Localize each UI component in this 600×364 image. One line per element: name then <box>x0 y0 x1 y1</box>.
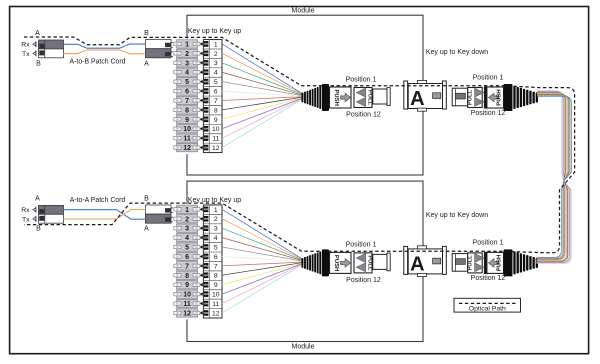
MPO connector PULL sleeve <box>354 88 372 108</box>
svg-text:9: 9 <box>214 282 218 289</box>
fanout fiber 7 (red) <box>222 97 304 101</box>
LC adapter port 9 on faceplate <box>174 281 200 289</box>
LC adapter port 1 on faceplate <box>174 205 200 213</box>
fanout fiber 6 (white) <box>222 91 304 96</box>
svg-text:PULL: PULL <box>468 255 474 271</box>
trunk fiber 4 (brown) <box>537 95 569 259</box>
LC adapter port 11 on faceplate <box>174 134 200 142</box>
fiber pigtail plug, table row 4 <box>200 69 218 76</box>
fanout fiber 1 (blue) <box>222 209 304 259</box>
svg-text:Module: Module <box>292 8 315 15</box>
fanout fiber 5 (slate) <box>222 247 304 261</box>
svg-text:Position 1: Position 1 <box>346 76 377 83</box>
svg-text:2: 2 <box>214 51 218 58</box>
trunk fiber 8 (black) <box>537 93 568 262</box>
module front faceplate LC adapter column background <box>173 204 201 320</box>
svg-text:4: 4 <box>214 235 218 242</box>
fiber pigtail plug, table row 2 <box>200 51 218 58</box>
svg-text:3: 3 <box>185 226 189 233</box>
LC adapter port 6 on faceplate <box>174 252 200 260</box>
MPO connector boot (module side) <box>302 84 330 111</box>
svg-text:B: B <box>144 30 149 37</box>
duplex LC connector (right end, AA patch cord) <box>145 205 174 223</box>
svg-text:7: 7 <box>185 98 189 105</box>
svg-text:PULL: PULL <box>468 89 474 105</box>
LC adapter port 10 on faceplate <box>174 290 200 298</box>
LC adapter port 3 on faceplate <box>174 59 200 67</box>
fanout fiber 4 (brown) <box>222 72 304 95</box>
LC adapter port 9 on faceplate <box>174 115 200 123</box>
fanout fiber 8 (black) <box>222 262 304 275</box>
svg-text:7: 7 <box>214 98 218 105</box>
trunk fiber 9 (yellow) <box>537 92 569 262</box>
svg-text:Position 12: Position 12 <box>471 275 506 282</box>
LC adapter port 12 on faceplate <box>174 309 200 317</box>
svg-text:5: 5 <box>214 79 218 86</box>
MPO ferrule (trunk side) <box>452 254 468 272</box>
LC adapter port 8 on faceplate <box>174 106 200 114</box>
trunk fiber 11 (rose) <box>537 91 571 263</box>
svg-text:Key up to Key down: Key up to Key down <box>426 212 488 219</box>
svg-text:A: A <box>410 88 424 110</box>
svg-text:12: 12 <box>212 145 220 152</box>
LC adapter port 5 on faceplate <box>174 77 200 85</box>
svg-text:Position 12: Position 12 <box>346 111 381 118</box>
svg-text:4: 4 <box>214 70 218 77</box>
LC adapter port 4 on faceplate <box>174 68 200 76</box>
svg-text:3: 3 <box>214 226 218 233</box>
svg-text:7: 7 <box>185 263 189 270</box>
rear fiber table (positions 1-12) <box>203 40 222 153</box>
svg-text:A-to-B Patch Cord: A-to-B Patch Cord <box>70 58 126 65</box>
MPO connector boot (module side) <box>302 249 330 276</box>
svg-text:A: A <box>144 60 149 67</box>
svg-text:B: B <box>144 195 149 202</box>
MPO connector PUSH housing <box>330 87 352 108</box>
LC adapter port 3 on faceplate <box>174 224 200 232</box>
fanout fiber 3 (green) <box>222 228 304 260</box>
svg-text:3: 3 <box>185 60 189 67</box>
fanout fiber 8 (black) <box>222 97 304 110</box>
MPO connector PULL sleeve <box>354 253 372 273</box>
svg-text:12: 12 <box>183 145 191 152</box>
module front faceplate LC adapter column background <box>173 39 201 155</box>
duplex LC connector (right end, AB patch cord) <box>145 40 174 58</box>
svg-text:9: 9 <box>185 282 189 289</box>
svg-text:Module: Module <box>292 343 315 350</box>
svg-text:6: 6 <box>214 254 218 261</box>
svg-text:1: 1 <box>214 207 218 214</box>
svg-text:12: 12 <box>212 310 220 317</box>
duplex LC connector (left end, AA patch cord) <box>33 205 64 223</box>
LC adapter port 7 on faceplate <box>174 262 200 270</box>
svg-text:PUSH: PUSH <box>333 90 339 106</box>
svg-text:11: 11 <box>183 301 191 308</box>
fanout fiber 12 (aqua) <box>222 98 304 147</box>
fiber pigtail plug, table row 9 <box>200 282 218 289</box>
fanout fiber 2 (orange) <box>222 53 304 94</box>
svg-text:5: 5 <box>185 245 189 252</box>
MPO ferrule <box>373 253 390 271</box>
svg-text:Tx: Tx <box>22 51 30 58</box>
MPO adapter "A" (key-up / key-down) <box>404 80 447 111</box>
svg-text:2: 2 <box>185 51 189 58</box>
fiber pigtail plug, table row 4 <box>200 235 218 242</box>
LC adapter port 6 on faceplate <box>174 87 200 95</box>
svg-text:PULL: PULL <box>367 90 373 106</box>
fiber pigtail plug, table row 8 <box>200 107 218 114</box>
LC adapter port 8 on faceplate <box>174 271 200 279</box>
svg-text:5: 5 <box>185 79 189 86</box>
fanout fiber 12 (aqua) <box>222 264 304 313</box>
svg-text:PUSH: PUSH <box>497 89 503 105</box>
fiber pigtail plug, table row 6 <box>200 254 218 261</box>
svg-text:10: 10 <box>212 126 220 133</box>
trunk fiber 1 (blue) <box>537 96 572 257</box>
fiber pigtail plug, table row 9 <box>200 117 218 124</box>
MPO trunk connector PULL sleeve <box>468 253 483 273</box>
MPO trunk connector PUSH housing <box>485 252 504 273</box>
svg-text:Position 1: Position 1 <box>473 74 504 81</box>
svg-text:Optical Path: Optical Path <box>469 305 506 312</box>
svg-text:8: 8 <box>185 107 189 114</box>
MPO ferrule (trunk side) <box>452 88 468 106</box>
svg-text:10: 10 <box>183 126 191 133</box>
fanout fiber 9 (yellow) <box>222 263 304 285</box>
MPO trunk connector PUSH housing <box>485 87 504 108</box>
svg-text:8: 8 <box>185 273 189 280</box>
svg-text:3: 3 <box>214 60 218 67</box>
svg-text:8: 8 <box>214 107 218 114</box>
fiber pigtail plug, table row 12 <box>200 310 220 317</box>
MPO ferrule <box>373 88 390 106</box>
MPO trunk connector boot <box>504 249 539 276</box>
orange fiber (A-to-A cord, crosses over) <box>64 210 146 220</box>
fanout fiber 9 (yellow) <box>222 97 304 119</box>
fiber pigtail plug, table row 10 <box>200 126 220 133</box>
fanout fiber 6 (white) <box>222 256 304 261</box>
fanout fiber 4 (brown) <box>222 238 304 261</box>
fanout fiber 5 (slate) <box>222 82 304 96</box>
svg-text:B: B <box>36 60 41 67</box>
svg-text:11: 11 <box>212 136 219 143</box>
svg-text:A-to-A Patch Cord: A-to-A Patch Cord <box>70 197 126 204</box>
legend box: Optical Path <box>454 298 521 312</box>
fiber pigtail plug, table row 3 <box>200 225 218 232</box>
fanout fiber 7 (red) <box>222 262 304 266</box>
trunk fiber 2 (orange) <box>537 96 571 258</box>
fanout fiber 1 (blue) <box>222 44 304 94</box>
svg-text:11: 11 <box>183 136 191 143</box>
module enclosure box (top) <box>187 15 423 175</box>
module enclosure box (bottom) <box>187 181 423 341</box>
fiber pigtail plug, table row 8 <box>200 272 218 279</box>
LC adapter port 10 on faceplate <box>174 125 200 133</box>
svg-text:A: A <box>410 254 424 276</box>
LC adapter port 7 on faceplate <box>174 96 200 104</box>
rear fiber table (positions 1-12) <box>203 205 222 318</box>
MPO trunk connector boot <box>504 84 539 111</box>
LC adapter port 11 on faceplate <box>174 299 200 307</box>
fiber pigtail plug, table row 5 <box>200 244 218 251</box>
LC adapter port 5 on faceplate <box>174 243 200 251</box>
svg-text:2: 2 <box>185 216 189 223</box>
fiber pigtail plug, table row 7 <box>200 263 218 270</box>
svg-text:9: 9 <box>185 117 189 124</box>
svg-text:Position 1: Position 1 <box>346 242 377 249</box>
fiber pigtail plug, table row 5 <box>200 79 218 86</box>
svg-text:4: 4 <box>185 235 189 242</box>
svg-text:Position 12: Position 12 <box>346 277 381 284</box>
svg-text:11: 11 <box>212 301 219 308</box>
svg-text:A: A <box>35 195 40 202</box>
fanout fiber 10 (violet) <box>222 263 304 294</box>
trunk fiber 6 (white) <box>537 94 567 260</box>
svg-text:2: 2 <box>214 216 218 223</box>
svg-text:6: 6 <box>185 254 189 261</box>
LC adapter port 4 on faceplate <box>174 233 200 241</box>
svg-text:6: 6 <box>185 89 189 96</box>
svg-text:8: 8 <box>214 273 218 280</box>
svg-text:A: A <box>35 30 40 37</box>
LC adapter port 2 on faceplate <box>174 49 200 57</box>
MPO connector PUSH housing <box>330 252 352 273</box>
trunk fiber 5 (slate) <box>537 94 568 259</box>
fiber pigtail plug, table row 11 <box>200 301 220 308</box>
svg-text:5: 5 <box>214 244 218 251</box>
trunk fiber 10 (violet) <box>537 92 570 263</box>
svg-text:Position 1: Position 1 <box>473 240 504 247</box>
svg-text:7: 7 <box>214 263 218 270</box>
svg-text:Tx: Tx <box>22 216 30 223</box>
MPO adapter "A" (key-up / key-down) <box>404 246 447 277</box>
fanout fiber 10 (violet) <box>222 98 304 129</box>
svg-text:10: 10 <box>212 292 220 299</box>
svg-text:PUSH: PUSH <box>497 255 503 271</box>
MPO trunk connector PULL sleeve <box>468 88 483 108</box>
svg-text:A: A <box>144 226 149 233</box>
fiber pigtail plug, table row 6 <box>200 88 218 95</box>
optical path (dashed): A-to-B cord, top module, trunk, bottom module, A-to-A cord <box>24 37 575 253</box>
orange fiber (A-to-B cord) <box>64 50 146 54</box>
duplex LC connector (left end, AB patch cord) <box>33 40 64 58</box>
fanout fiber 2 (orange) <box>222 219 304 260</box>
fanout fiber 3 (green) <box>222 63 304 95</box>
svg-text:Rx: Rx <box>21 42 30 49</box>
trunk fiber 3 (green) <box>537 95 570 258</box>
fiber pigtail plug, table row 11 <box>200 135 220 142</box>
blue fiber (A-to-B cord) <box>64 44 146 48</box>
svg-text:10: 10 <box>183 292 191 299</box>
svg-text:Key up to Key up: Key up to Key up <box>188 28 241 35</box>
svg-text:B: B <box>36 226 41 233</box>
svg-text:12: 12 <box>183 310 191 317</box>
trunk fiber 7 (red) <box>537 93 567 261</box>
svg-text:1: 1 <box>214 41 218 48</box>
fiber pigtail plug, table row 1 <box>200 41 218 48</box>
trunk fiber 12 (aqua) <box>537 90 572 263</box>
svg-text:PUSH: PUSH <box>333 255 339 271</box>
svg-text:4: 4 <box>185 70 189 77</box>
svg-text:Rx: Rx <box>21 207 30 214</box>
fiber pigtail plug, table row 1 <box>200 207 218 214</box>
LC adapter port 2 on faceplate <box>174 215 200 223</box>
svg-text:1: 1 <box>185 207 189 214</box>
LC adapter port 1 on faceplate <box>174 40 200 48</box>
svg-text:PULL: PULL <box>367 255 373 271</box>
svg-text:Key up to Key down: Key up to Key down <box>426 49 488 56</box>
fanout fiber 11 (rose) <box>222 264 304 304</box>
svg-text:1: 1 <box>185 41 189 48</box>
LC adapter port 12 on faceplate <box>174 143 200 151</box>
fiber pigtail plug, table row 3 <box>200 60 218 67</box>
svg-text:Position 12: Position 12 <box>471 110 506 117</box>
fanout fiber 11 (rose) <box>222 98 304 138</box>
svg-text:9: 9 <box>214 117 218 124</box>
fiber pigtail plug, table row 12 <box>200 145 220 152</box>
blue fiber (A-to-A cord, crosses over) <box>64 210 146 220</box>
svg-text:6: 6 <box>214 89 218 96</box>
fiber pigtail plug, table row 10 <box>200 291 220 298</box>
fiber pigtail plug, table row 2 <box>200 216 218 223</box>
fiber pigtail plug, table row 7 <box>200 98 218 105</box>
